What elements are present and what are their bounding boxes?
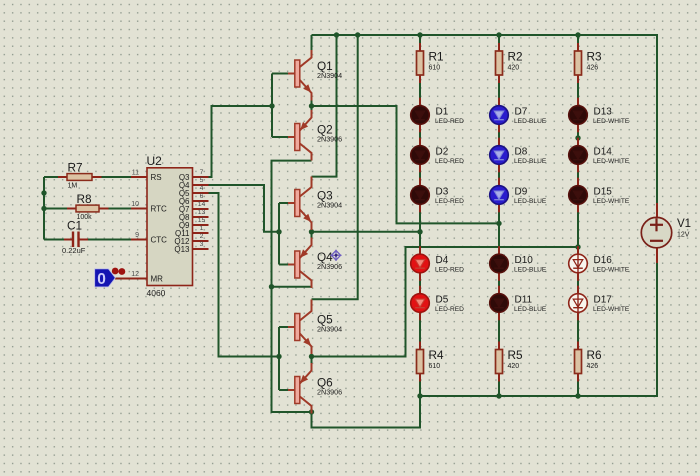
LED D10 LED-BLUE bbox=[490, 246, 547, 281]
node MR wire marker dots bbox=[112, 268, 126, 275]
svg-text:D1: D1 bbox=[436, 107, 449, 118]
node pair2 base junction bbox=[276, 229, 281, 234]
svg-text:420: 420 bbox=[508, 65, 520, 72]
node rail/Q5 collector bbox=[355, 32, 360, 37]
IC U2 4060 bbox=[131, 154, 205, 298]
resistor R1 610 bbox=[417, 43, 444, 83]
LED D9 LED-BLUE bbox=[490, 178, 547, 213]
svg-text:420: 420 bbox=[508, 363, 520, 370]
wire pair2 base vertical bbox=[279, 203, 288, 265]
svg-text:610: 610 bbox=[429, 363, 441, 370]
wire pair1 output (Q1/Q2 emitters) to blue column bbox=[312, 106, 500, 223]
svg-text:LED-WHITE: LED-WHITE bbox=[593, 158, 630, 165]
wire R8 row to U2 RTC bbox=[44, 208, 131, 210]
LED D16 LED-WHITE bbox=[569, 246, 630, 281]
svg-text:0: 0 bbox=[97, 271, 106, 288]
transistor Q5 2N3904 NPN bbox=[288, 300, 342, 355]
svg-text:U2: U2 bbox=[147, 154, 163, 168]
svg-text:LED-BLUE: LED-BLUE bbox=[514, 118, 547, 125]
svg-text:LED-RED: LED-RED bbox=[435, 118, 464, 125]
svg-text:2N3904: 2N3904 bbox=[317, 201, 342, 210]
svg-text:LED-WHITE: LED-WHITE bbox=[593, 306, 630, 313]
svg-text:LED-BLUE: LED-BLUE bbox=[514, 198, 547, 205]
svg-text:D17: D17 bbox=[594, 295, 613, 306]
svg-text:LED-BLUE: LED-BLUE bbox=[514, 267, 547, 274]
svg-text:LED-WHITE: LED-WHITE bbox=[593, 267, 630, 274]
resistor R4 610 bbox=[417, 342, 445, 382]
svg-text:13: 13 bbox=[198, 209, 206, 216]
node pair3 base junction bbox=[276, 354, 281, 359]
svg-text:R1: R1 bbox=[429, 50, 444, 64]
svg-text:2N3904: 2N3904 bbox=[317, 325, 342, 334]
node bottom rail/R6 bbox=[575, 393, 580, 398]
svg-text:R4: R4 bbox=[429, 348, 445, 362]
node PNP bus / Q4 collector junction bbox=[269, 284, 274, 289]
svg-text:D9: D9 bbox=[515, 187, 528, 198]
node pair1 base junction bbox=[269, 103, 274, 108]
LED D15 LED-WHITE bbox=[569, 178, 630, 213]
svg-text:CTC: CTC bbox=[151, 236, 168, 245]
resistor R7 1M bbox=[58, 161, 102, 190]
svg-text:D5: D5 bbox=[436, 295, 449, 306]
transistor Q1 2N3904 NPN bbox=[288, 50, 342, 101]
LED D14 LED-WHITE bbox=[569, 138, 630, 173]
svg-text:6: 6 bbox=[200, 193, 204, 200]
svg-text:RS: RS bbox=[151, 173, 162, 182]
LED D13 LED-WHITE bbox=[569, 98, 630, 133]
svg-text:11: 11 bbox=[132, 170, 139, 177]
svg-text:1M: 1M bbox=[68, 183, 78, 190]
svg-text:LED-BLUE: LED-BLUE bbox=[514, 306, 547, 313]
svg-text:2: 2 bbox=[200, 233, 204, 240]
wire C1 row to U2 CTC bbox=[44, 239, 131, 241]
node column3 mid junction bbox=[575, 135, 580, 140]
svg-text:D4: D4 bbox=[436, 255, 449, 266]
LED D1 LED-RED bbox=[411, 98, 464, 133]
resistor R6 426 bbox=[575, 342, 603, 382]
LED D2 LED-RED bbox=[411, 138, 464, 173]
wire Q5 collector to rail bbox=[312, 35, 358, 299]
svg-text:R3: R3 bbox=[587, 50, 603, 64]
node rail/R1 bbox=[417, 32, 422, 37]
node pair2 emitter junction bbox=[309, 229, 314, 234]
svg-text:2N3904: 2N3904 bbox=[317, 71, 342, 80]
node rail/R3 bbox=[575, 32, 580, 37]
resistor R5 420 bbox=[496, 342, 524, 382]
svg-text:D8: D8 bbox=[515, 147, 528, 158]
svg-text:9: 9 bbox=[135, 232, 139, 239]
transistor Q4 2N3906 PNP bbox=[288, 238, 342, 289]
wire R7 row to U2 RS bbox=[44, 176, 131, 178]
wire U2 Q4 (pin5) feed to Q3/Q4 bases bbox=[209, 185, 280, 232]
wire U2 Q3 (pin7) feed to Q1/Q2 bases bbox=[209, 106, 273, 177]
origin marker near Q4 bbox=[330, 250, 341, 261]
svg-text:1: 1 bbox=[200, 225, 204, 232]
svg-text:MR: MR bbox=[151, 275, 164, 284]
transistor Q6 2N3906 PNP bbox=[288, 363, 342, 414]
wire RC network left vertical bbox=[43, 177, 45, 240]
LED D8 LED-BLUE bbox=[490, 138, 547, 173]
wire rail to Q1 collector bbox=[311, 35, 313, 52]
transistor Q3 2N3904 NPN bbox=[288, 177, 342, 231]
svg-text:12: 12 bbox=[131, 271, 139, 278]
node red column feed junction bbox=[417, 229, 422, 234]
battery V1 12V bbox=[641, 203, 691, 263]
LED D4 LED-RED bbox=[411, 246, 464, 281]
svg-text:D14: D14 bbox=[594, 147, 613, 158]
LED D17 LED-WHITE bbox=[569, 286, 630, 321]
U2 right pin stubs (Q3..Q13) bbox=[193, 177, 209, 249]
svg-text:R5: R5 bbox=[508, 348, 524, 362]
svg-text:D11: D11 bbox=[515, 295, 533, 306]
node left vertical upper junction bbox=[41, 190, 46, 195]
svg-text:3: 3 bbox=[200, 241, 204, 248]
svg-text:426: 426 bbox=[587, 363, 599, 370]
capacitor C1 0.22uF bbox=[62, 219, 88, 256]
wire V1 minus to bottom rail bbox=[420, 263, 657, 396]
wire Q4 collector branch bbox=[272, 286, 312, 288]
svg-text:4: 4 bbox=[200, 185, 204, 192]
svg-text:7: 7 bbox=[200, 169, 204, 176]
svg-text:D7: D7 bbox=[515, 107, 528, 118]
U2 left pin stubs (RS 11, RTC 10, CTC 9, MR 12) bbox=[115, 177, 147, 279]
node left vertical R8 junction bbox=[41, 206, 46, 211]
svg-text:610: 610 bbox=[429, 65, 441, 72]
wire pair3 base vertical bbox=[279, 327, 288, 390]
LED D5 LED-RED bbox=[411, 286, 464, 321]
wire pair1 base vertical bbox=[272, 74, 288, 138]
svg-text:5: 5 bbox=[200, 177, 204, 184]
resistor R8 100k bbox=[67, 192, 109, 221]
svg-text:R6: R6 bbox=[587, 348, 603, 362]
wire pair3 output (Q5/Q6 emitters) to white column bbox=[312, 247, 579, 357]
wire bottom ground rail return to PNP collectors bbox=[312, 396, 421, 428]
svg-text:LED-RED: LED-RED bbox=[435, 198, 464, 205]
node rail/R2 bbox=[496, 32, 501, 37]
node bottom rail/R5 bbox=[496, 393, 501, 398]
svg-text:D16: D16 bbox=[594, 255, 613, 266]
svg-text:2N3906: 2N3906 bbox=[317, 262, 342, 271]
svg-text:D15: D15 bbox=[594, 187, 613, 198]
wire PNP collector bus (Q2,Q4,Q6) bbox=[272, 161, 312, 412]
node rail/Q3 collector bbox=[334, 32, 339, 37]
node blue column feed junction bbox=[496, 221, 501, 226]
svg-text:Q13: Q13 bbox=[174, 245, 190, 254]
svg-text:V1: V1 bbox=[677, 218, 691, 230]
node white column feed junction bbox=[575, 244, 580, 249]
wire pair2 output (Q3/Q4 emitters) to red column bbox=[312, 231, 421, 233]
svg-text:RTC: RTC bbox=[151, 205, 168, 214]
svg-text:LED-BLUE: LED-BLUE bbox=[514, 158, 547, 165]
svg-text:10: 10 bbox=[131, 201, 139, 208]
svg-text:C1: C1 bbox=[67, 219, 82, 233]
wire pair1 emitter junction vertical bbox=[311, 99, 313, 112]
svg-text:LED-RED: LED-RED bbox=[435, 267, 464, 274]
wire LED column 3 (white) bbox=[577, 35, 579, 396]
logic state 0 flag at MR bbox=[95, 269, 116, 288]
svg-text:2N3906: 2N3906 bbox=[317, 135, 342, 144]
transistor Q2 2N3906 PNP bbox=[288, 110, 342, 161]
wire +12V top rail bbox=[312, 35, 658, 203]
svg-text:15: 15 bbox=[198, 217, 206, 224]
node bottom rail / return junction bbox=[417, 393, 422, 398]
svg-text:R7: R7 bbox=[68, 161, 83, 175]
svg-text:LED-RED: LED-RED bbox=[435, 306, 464, 313]
svg-text:2N3906: 2N3906 bbox=[317, 388, 342, 397]
svg-text:R2: R2 bbox=[508, 50, 523, 64]
svg-text:14: 14 bbox=[198, 201, 206, 208]
svg-text:D10: D10 bbox=[515, 255, 534, 266]
wire U2 Q5 (pin4) feed to Q5/Q6 bases bbox=[209, 193, 280, 357]
svg-text:D13: D13 bbox=[594, 107, 613, 118]
resistor R2 420 bbox=[496, 43, 523, 83]
svg-text:4060: 4060 bbox=[147, 288, 166, 298]
svg-text:426: 426 bbox=[587, 65, 599, 72]
svg-text:LED-WHITE: LED-WHITE bbox=[593, 198, 630, 205]
node pair1 emitter junction bbox=[309, 103, 314, 108]
wire Q3 collector to rail bbox=[312, 35, 337, 177]
resistor R3 426 bbox=[575, 43, 603, 83]
wire LED column 1 (red) bbox=[419, 35, 421, 396]
LED D7 LED-BLUE bbox=[490, 98, 547, 133]
svg-text:0.22uF: 0.22uF bbox=[62, 246, 86, 255]
wire LED column 2 (blue) bbox=[498, 35, 500, 396]
svg-text:LED-RED: LED-RED bbox=[435, 158, 464, 165]
wire pair2 emitter junction vertical bbox=[311, 229, 313, 240]
node pair3 emitter junction bbox=[309, 354, 314, 359]
wire pair3 emitter junction vertical bbox=[311, 353, 313, 365]
svg-text:D3: D3 bbox=[436, 187, 449, 198]
LED D3 LED-RED bbox=[411, 178, 464, 213]
svg-text:D2: D2 bbox=[436, 147, 449, 158]
svg-text:12V: 12V bbox=[677, 232, 690, 239]
node Q6 collector junction bbox=[309, 409, 314, 414]
svg-text:LED-WHITE: LED-WHITE bbox=[593, 118, 630, 125]
svg-text:R8: R8 bbox=[77, 192, 93, 206]
LED D11 LED-BLUE bbox=[490, 286, 547, 321]
